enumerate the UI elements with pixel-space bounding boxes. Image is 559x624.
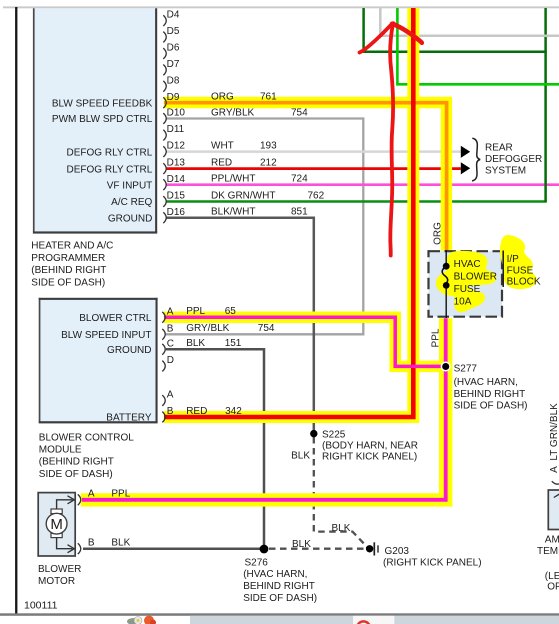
svg-text:RED: RED bbox=[211, 157, 232, 168]
svg-text:BLK: BLK bbox=[291, 450, 310, 461]
ground G203 bbox=[366, 542, 482, 568]
rear defogger system label bbox=[485, 142, 542, 176]
svg-text:GRY/BLK: GRY/BLK bbox=[211, 107, 254, 118]
wire PPL 65 blower A to S277 bbox=[164, 317, 441, 366]
dark green wire top horizontal bbox=[362, 51, 546, 54]
splice S225 bbox=[310, 430, 418, 463]
pin C bbox=[162, 338, 174, 354]
pin D10 bbox=[163, 108, 185, 124]
svg-text:D5: D5 bbox=[167, 26, 180, 37]
splice S276 bbox=[243, 545, 317, 604]
svg-text:MODULE: MODULE bbox=[39, 445, 82, 456]
yellow highlight on RED 342 path bbox=[164, 8, 413, 417]
svg-text:OF DASH): OF DASH) bbox=[547, 582, 559, 593]
svg-text:RED: RED bbox=[186, 406, 207, 417]
svg-text:(HVAC HARN,: (HVAC HARN, bbox=[454, 377, 518, 388]
svg-text:DEFOGGER: DEFOGGER bbox=[485, 154, 542, 165]
svg-text:C: C bbox=[167, 338, 174, 349]
I/P fuse block box (dashed) bbox=[429, 251, 503, 317]
svg-text:BEHIND RIGHT: BEHIND RIGHT bbox=[454, 389, 526, 400]
svg-text:DEFOG RLY CTRL: DEFOG RLY CTRL bbox=[67, 147, 153, 158]
svg-text:TEMP SEN: TEMP SEN bbox=[537, 546, 559, 557]
svg-text:BLOCK: BLOCK bbox=[507, 277, 541, 288]
yellow highlighter blob over HVAC BLOWER FUSE text bbox=[436, 251, 496, 312]
pin B bbox=[162, 406, 174, 422]
svg-text:100111: 100111 bbox=[24, 599, 58, 611]
blower control module box bbox=[39, 298, 158, 424]
svg-text:BLW SPEED INPUT: BLW SPEED INPUT bbox=[61, 330, 151, 341]
wire PPL/WHT 724 bbox=[166, 183, 559, 186]
dashed wire BLK S276 to G203 bbox=[269, 548, 366, 550]
svg-text:AMBIENT: AMBIENT bbox=[545, 534, 559, 545]
svg-text:BLK: BLK bbox=[292, 539, 311, 550]
rear defogger arrow 2 bbox=[461, 162, 470, 174]
light gray wire top bbox=[380, 8, 559, 36]
dashed wire BLK S225 to G203 bbox=[314, 437, 368, 547]
red hand-drawn arrow annotation bbox=[360, 21, 422, 255]
svg-text:A: A bbox=[167, 390, 174, 401]
svg-text:S225: S225 bbox=[322, 430, 346, 441]
pin D8 bbox=[163, 75, 180, 91]
svg-text:DEFOG RLY CTRL: DEFOG RLY CTRL bbox=[67, 164, 153, 175]
svg-text:REAR: REAR bbox=[485, 142, 513, 153]
svg-text:10A: 10A bbox=[454, 296, 472, 307]
svg-text:(HVAC HARN,: (HVAC HARN, bbox=[243, 569, 307, 580]
svg-text:I/P: I/P bbox=[507, 254, 520, 265]
wire GRY/BLK 754 D10 to blower B bbox=[166, 119, 363, 335]
wire BLK 151 blower C to S276 bbox=[166, 349, 264, 549]
pin D12 bbox=[163, 141, 185, 157]
svg-text:HVAC: HVAC bbox=[454, 259, 481, 270]
dark green wire top-left vertical bbox=[362, 8, 365, 53]
motor pin B bbox=[78, 538, 95, 555]
svg-text:HEATER AND A/C: HEATER AND A/C bbox=[31, 241, 113, 252]
svg-text:BEHIND RIGHT: BEHIND RIGHT bbox=[243, 581, 315, 592]
svg-text:754: 754 bbox=[258, 323, 275, 334]
pin B bbox=[162, 323, 174, 339]
svg-text:FUSE: FUSE bbox=[507, 265, 534, 276]
svg-text:BLK: BLK bbox=[111, 538, 130, 549]
svg-text:G203: G203 bbox=[385, 546, 410, 557]
pin D6 bbox=[163, 43, 180, 59]
svg-text:65: 65 bbox=[225, 306, 237, 317]
svg-text:BLOWER: BLOWER bbox=[454, 272, 497, 283]
svg-text:D6: D6 bbox=[167, 43, 180, 54]
svg-text:A: A bbox=[88, 489, 95, 500]
svg-text:VF INPUT: VF INPUT bbox=[107, 180, 153, 191]
svg-text:D8: D8 bbox=[167, 75, 180, 86]
svg-text:SIDE OF DASH): SIDE OF DASH) bbox=[31, 277, 105, 288]
pin A bbox=[162, 390, 174, 406]
svg-text:(BODY HARN, NEAR: (BODY HARN, NEAR bbox=[322, 440, 418, 451]
svg-text:ORG: ORG bbox=[433, 222, 444, 245]
svg-text:754: 754 bbox=[291, 107, 308, 118]
yellow highlight on PPL fuse-to-motor path bbox=[81, 318, 446, 500]
svg-text:MOTOR: MOTOR bbox=[38, 576, 75, 587]
wire PPL fuse to S277 to blower motor A bbox=[82, 318, 446, 500]
svg-text:BLK/WHT: BLK/WHT bbox=[211, 207, 255, 218]
svg-text:SIDE OF DASH): SIDE OF DASH) bbox=[454, 401, 528, 412]
svg-text:D14: D14 bbox=[167, 174, 186, 185]
blower motor label bbox=[38, 564, 81, 587]
svg-text:724: 724 bbox=[291, 174, 308, 185]
pin D9 bbox=[163, 92, 180, 108]
svg-text:PPL: PPL bbox=[431, 328, 442, 347]
ambient sensor label bbox=[537, 534, 559, 592]
svg-text:PWM BLW SPD CTRL: PWM BLW SPD CTRL bbox=[52, 114, 153, 125]
svg-text:(LEFT SIDE: (LEFT SIDE bbox=[545, 571, 559, 582]
svg-text:B: B bbox=[88, 538, 95, 549]
svg-text:D12: D12 bbox=[167, 141, 186, 152]
I/P fuse block label bbox=[503, 251, 541, 288]
rear defogger arrow 1 bbox=[461, 146, 470, 158]
pin D5 bbox=[163, 26, 180, 42]
wire DK GRN/WHT 762 bbox=[166, 200, 547, 203]
svg-text:151: 151 bbox=[225, 338, 242, 349]
motor pin A bbox=[78, 489, 95, 506]
ambient sensor box bbox=[548, 490, 559, 530]
rear defogger brace bbox=[472, 138, 480, 181]
svg-text:GRY/BLK: GRY/BLK bbox=[186, 323, 229, 334]
svg-text:BLOWER: BLOWER bbox=[38, 564, 81, 575]
svg-text:D9: D9 bbox=[167, 92, 180, 103]
bottom UI bar bbox=[0, 613, 559, 624]
splice S277 bbox=[441, 362, 527, 412]
page top border bbox=[3, 6, 559, 8]
svg-text:B: B bbox=[167, 323, 174, 334]
svg-text:BLK: BLK bbox=[332, 523, 351, 534]
svg-text:761: 761 bbox=[260, 92, 277, 103]
svg-text:212: 212 bbox=[260, 157, 277, 168]
pin A bbox=[162, 306, 174, 322]
svg-text:ORG: ORG bbox=[211, 92, 234, 103]
svg-text:PPL/WHT: PPL/WHT bbox=[211, 174, 255, 185]
wire ORG 761 D9 to fuse bbox=[164, 103, 447, 251]
svg-text:(BEHIND RIGHT: (BEHIND RIGHT bbox=[39, 457, 114, 468]
bright green wire bbox=[397, 8, 559, 84]
svg-text:851: 851 bbox=[291, 207, 308, 218]
svg-text:GROUND: GROUND bbox=[108, 213, 152, 224]
svg-text:BLK: BLK bbox=[186, 338, 205, 349]
svg-text:762: 762 bbox=[308, 190, 325, 201]
svg-text:S276: S276 bbox=[245, 558, 269, 569]
svg-text:(BEHIND RIGHT: (BEHIND RIGHT bbox=[31, 265, 106, 276]
svg-text:(RIGHT KICK PANEL): (RIGHT KICK PANEL) bbox=[383, 557, 482, 568]
svg-text:A LT GRN/BLK: A LT GRN/BLK bbox=[549, 403, 559, 473]
wire RED 212 bbox=[166, 167, 461, 170]
pin D bbox=[162, 355, 174, 371]
pin D4 bbox=[163, 10, 180, 26]
svg-text:WHT: WHT bbox=[211, 140, 234, 151]
fuse label bbox=[454, 259, 497, 307]
svg-text:SIDE OF DASH): SIDE OF DASH) bbox=[243, 593, 317, 604]
dark green wire right vertical bbox=[544, 8, 547, 202]
svg-text:B: B bbox=[167, 406, 174, 417]
pin D15 bbox=[163, 191, 185, 207]
svg-text:SIDE OF DASH): SIDE OF DASH) bbox=[39, 469, 113, 480]
svg-text:M: M bbox=[50, 516, 63, 533]
pin D13 bbox=[163, 158, 185, 174]
svg-text:D16: D16 bbox=[167, 207, 186, 218]
svg-text:BLOWER CONTROL: BLOWER CONTROL bbox=[39, 432, 134, 443]
pin D7 bbox=[163, 59, 180, 75]
heater box label bbox=[31, 241, 113, 289]
pin D16 bbox=[163, 207, 185, 223]
svg-text:PPL: PPL bbox=[186, 306, 205, 317]
svg-text:D: D bbox=[167, 355, 174, 366]
svg-text:RIGHT KICK PANEL): RIGHT KICK PANEL) bbox=[322, 452, 417, 463]
svg-text:D7: D7 bbox=[167, 59, 180, 70]
svg-text:D4: D4 bbox=[167, 10, 180, 21]
HVAC blower fuse 10A symbol bbox=[442, 250, 449, 318]
yellow highlight on ORG 761 path bbox=[164, 103, 447, 251]
svg-text:GROUND: GROUND bbox=[107, 345, 151, 356]
svg-text:BLOWER CTRL: BLOWER CTRL bbox=[79, 313, 152, 324]
svg-text:D15: D15 bbox=[167, 191, 186, 202]
pin D14 bbox=[163, 174, 185, 190]
ambient sensor pin bracket bbox=[552, 481, 559, 484]
page left border bbox=[15, 7, 17, 614]
svg-text:BATTERY: BATTERY bbox=[106, 413, 152, 424]
wire WHT 193 bbox=[166, 150, 461, 153]
heater/AC programmer box bbox=[33, 8, 157, 233]
red circle logo bbox=[357, 621, 370, 624]
svg-text:BLW SPEED FEEDBK: BLW SPEED FEEDBK bbox=[52, 98, 153, 109]
svg-text:A: A bbox=[167, 306, 174, 317]
wire labels blower pins bbox=[186, 306, 236, 317]
svg-text:A/C REQ: A/C REQ bbox=[111, 197, 152, 208]
svg-text:193: 193 bbox=[260, 140, 277, 151]
wire labels heater pins bbox=[211, 92, 277, 103]
svg-text:DK GRN/WHT: DK GRN/WHT bbox=[211, 190, 275, 201]
svg-text:342: 342 bbox=[225, 406, 242, 417]
svg-text:PPL: PPL bbox=[111, 489, 130, 500]
yellow highlight on PPL 65 path bbox=[164, 317, 441, 366]
svg-text:D13: D13 bbox=[167, 158, 186, 169]
pin D11 bbox=[163, 124, 184, 140]
yellow highlighter blob over I/P FUSE BLOCK text bbox=[500, 235, 537, 289]
wire RED 342 battery feed bbox=[164, 8, 413, 417]
svg-text:S277: S277 bbox=[454, 363, 478, 374]
svg-text:D11: D11 bbox=[167, 124, 185, 135]
flower icon bbox=[127, 616, 156, 624]
svg-text:PROGRAMMER: PROGRAMMER bbox=[31, 253, 105, 264]
motor M symbol bbox=[46, 509, 67, 538]
blower control module label bbox=[39, 432, 134, 480]
svg-text:FUSE: FUSE bbox=[454, 284, 481, 295]
svg-text:D10: D10 bbox=[167, 108, 186, 119]
svg-text:SYSTEM: SYSTEM bbox=[485, 165, 526, 176]
blower motor box bbox=[38, 493, 75, 556]
motor internal wires and pin arrows bbox=[57, 496, 75, 553]
wire BLK blower motor B to S276 bbox=[83, 547, 264, 550]
wire BLK/WHT 851 D16 to S225 bbox=[166, 218, 314, 434]
